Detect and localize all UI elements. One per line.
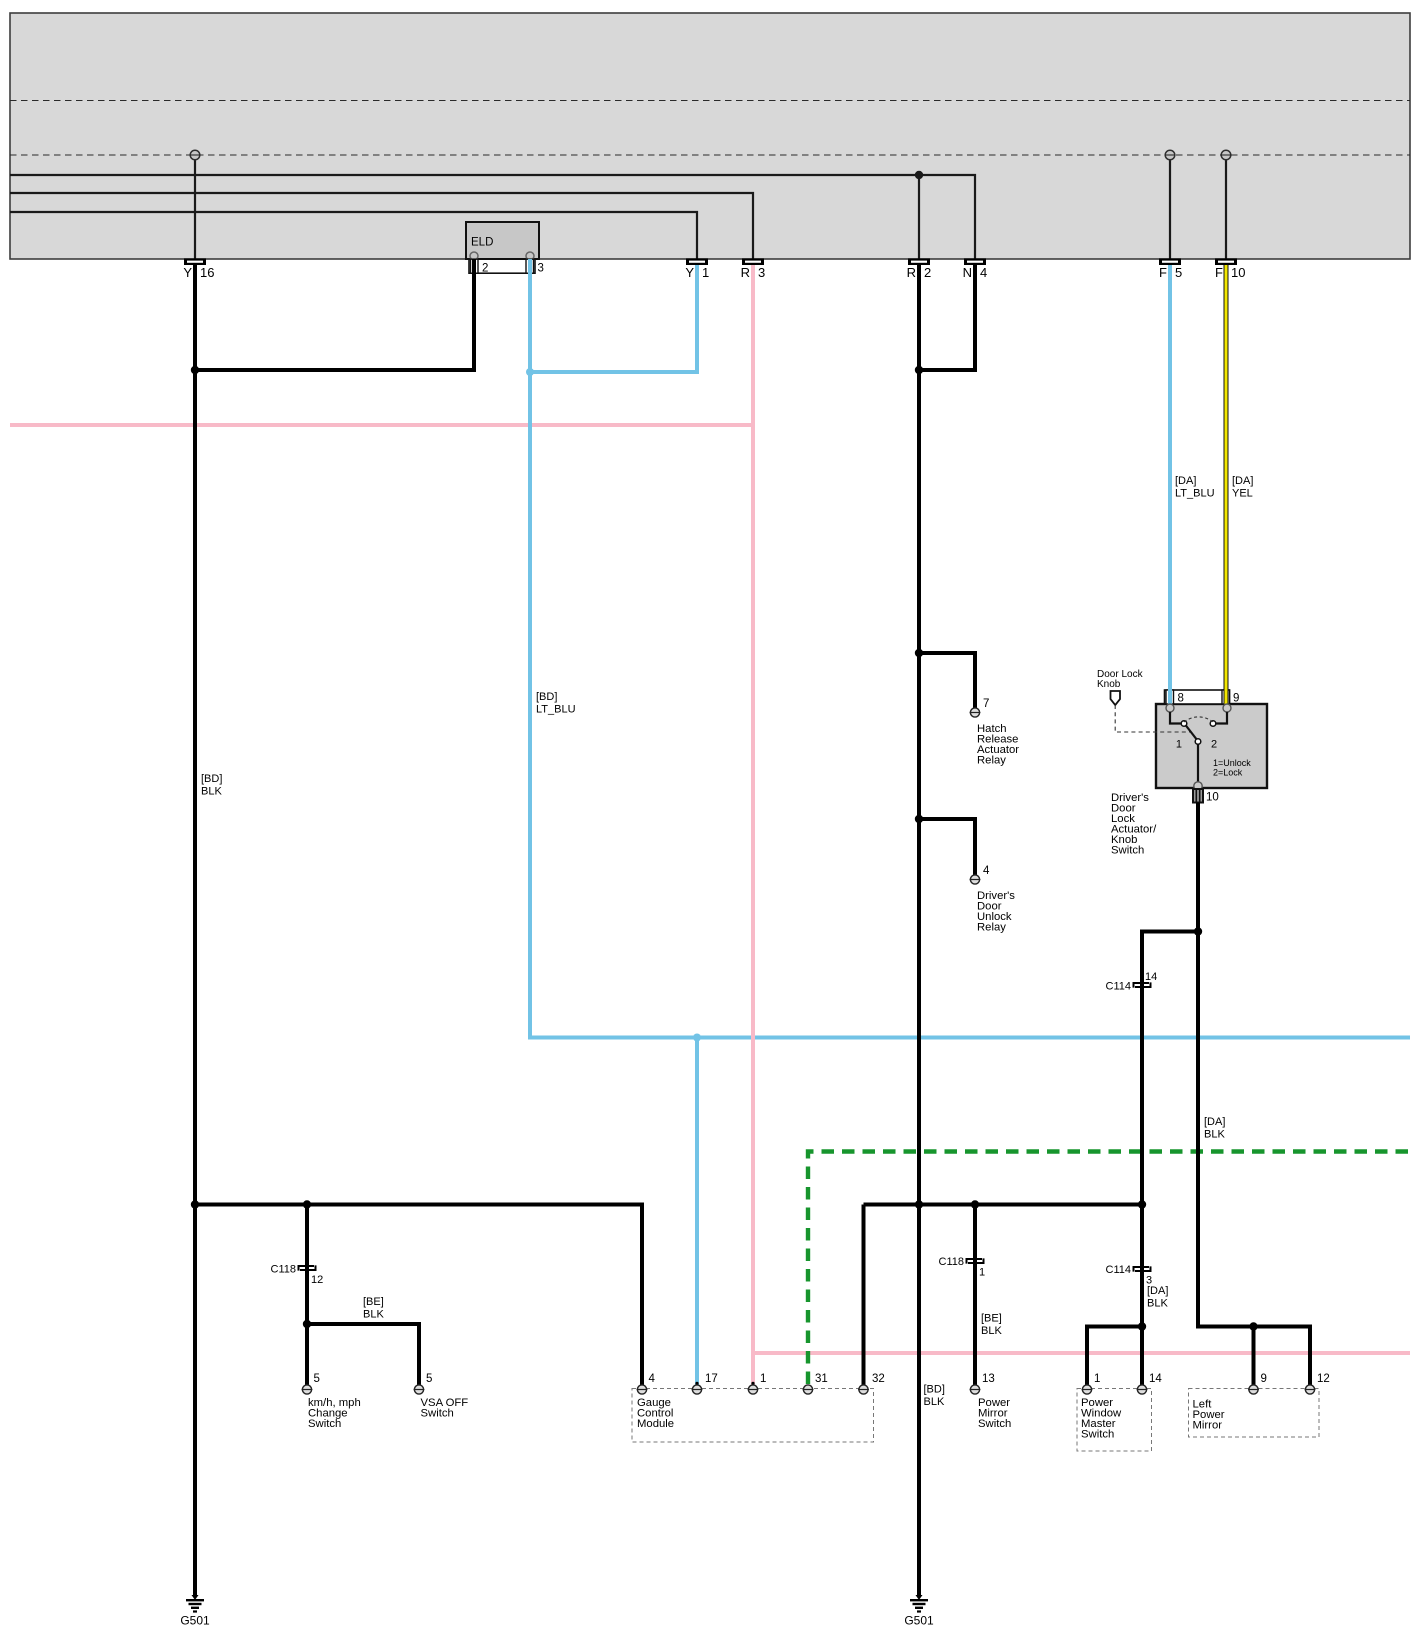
junction (919,653): [915, 649, 923, 657]
wire black R2 trunk to G501: [917, 265, 921, 1597]
svg-text:5: 5: [314, 1373, 320, 1385]
svg-text:LT_BLU: LT_BLU: [1175, 488, 1215, 500]
junction (1253.5,1326.5): [1249, 1322, 1257, 1330]
connector C118 pin 1: [939, 1256, 986, 1279]
gauge control module box: [632, 1389, 874, 1443]
gauge pin 4: [637, 1373, 656, 1394]
wire blue ELD pin3 down and across: [530, 259, 1410, 1038]
svg-text:14: 14: [1149, 1373, 1162, 1385]
svg-text:C114: C114: [1106, 981, 1131, 993]
wire branch to driver's door unlock relay pin 4: [919, 819, 975, 875]
switch wiring pin9 to contact 2: [1216, 712, 1227, 724]
svg-text:3: 3: [538, 263, 544, 275]
junction (1142,1204.5): [1138, 1200, 1146, 1208]
junction (195,1204.5): [191, 1200, 199, 1208]
svg-text:[DA]: [DA]: [1232, 475, 1253, 487]
svg-text:1: 1: [760, 1373, 766, 1385]
gauge pin 17: [692, 1373, 718, 1394]
svg-text:[BD]: [BD]: [201, 773, 222, 785]
gauge pin 32: [858, 1373, 885, 1394]
connector pins 8/9 block: [1165, 690, 1240, 705]
dashed bus line upper: [10, 100, 1410, 102]
svg-text:13: 13: [982, 1373, 995, 1385]
svg-text:1: 1: [1176, 739, 1182, 751]
pin 10 circle on box edge: [1194, 782, 1202, 790]
junction (1198,931.5): [1194, 927, 1202, 935]
svg-text:5: 5: [1175, 265, 1182, 280]
svg-text:F: F: [1215, 265, 1223, 280]
switch wiring pin8 to contact 1: [1170, 712, 1181, 724]
wire drop to left power mirror pin 9: [1252, 1327, 1256, 1386]
svg-text:31: 31: [815, 1373, 828, 1385]
junction (919,370): [915, 366, 923, 374]
wire black Y16 trunk to G501: [193, 265, 197, 1597]
wire black N4 jog to R2 trunk: [921, 265, 975, 370]
svg-text:C114: C114: [1106, 1264, 1131, 1276]
wire drop to C118-12 and km/h switch: [305, 1205, 309, 1386]
ground G501 right: [904, 1595, 934, 1628]
dash through page link circles: [190, 154, 201, 156]
svg-text:1: 1: [979, 1267, 985, 1279]
wire pink horizontal lower: [753, 1351, 1410, 1355]
svg-text:Switch: Switch: [978, 1418, 1011, 1430]
wire pink horizontal upper: [10, 423, 755, 427]
wire green dashed to gauge pin 31: [808, 1152, 1410, 1385]
svg-text:[DA]: [DA]: [1204, 1116, 1225, 1128]
gauge pin 31: [803, 1373, 828, 1394]
connector C114 pin 3: [1106, 1264, 1153, 1287]
svg-text:[BE]: [BE]: [981, 1313, 1002, 1325]
wire branch pin10 trunk to C114 line: [1142, 932, 1198, 1327]
svg-text:12: 12: [1317, 1373, 1330, 1385]
wire pink R3 to gauge pin 1: [751, 265, 755, 1385]
svg-text:[BD]: [BD]: [924, 1384, 945, 1396]
junction blue at (697,1037.5): [693, 1034, 701, 1042]
svg-text:1=Unlock: 1=Unlock: [1213, 758, 1251, 768]
svg-text:YEL: YEL: [1232, 488, 1253, 500]
connector N4: [963, 258, 988, 280]
svg-text:14: 14: [1145, 971, 1157, 983]
svg-text:BLK: BLK: [201, 786, 222, 798]
wire pin10 trunk to left power mirror: [1198, 803, 1310, 1386]
svg-text:4: 4: [649, 1373, 656, 1385]
svg-text:[BE]: [BE]: [363, 1296, 384, 1308]
wire drop to power mirror switch pin 13: [973, 1205, 977, 1386]
wire Y16 feed: [194, 155, 196, 259]
wire end dot pin 1: [751, 1382, 754, 1385]
svg-text:Switch: Switch: [1111, 845, 1144, 857]
junction bus A / R2: [915, 171, 923, 179]
svg-text:2=Lock: 2=Lock: [1213, 768, 1243, 778]
svg-text:R: R: [741, 265, 750, 280]
svg-text:7: 7: [983, 698, 989, 710]
svg-text:4: 4: [983, 865, 990, 877]
junction (307,1204.5): [303, 1200, 311, 1208]
junction (975,1204.5): [971, 1200, 979, 1208]
wire yellow through terminal 9: [1224, 689, 1229, 706]
svg-text:BLK: BLK: [981, 1325, 1002, 1337]
door lock knob symbol: [1111, 691, 1121, 705]
junction (307,1324): [303, 1320, 311, 1328]
svg-text:16: 16: [200, 265, 214, 280]
junction (1142,1326.5): [1138, 1322, 1146, 1330]
junction blue at (530,372): [526, 368, 534, 376]
lever pivot: [1195, 739, 1201, 745]
dashed travel arc: [1184, 717, 1213, 722]
dashed bus line lower: [10, 154, 1410, 156]
pin 7 hatch release actuator relay: [970, 698, 990, 717]
wire blue through terminal 8: [1168, 689, 1172, 706]
svg-text:Mirror: Mirror: [1193, 1420, 1223, 1432]
svg-text:BLK: BLK: [924, 1396, 945, 1408]
wire black ELD pin2 jog to Y16 trunk: [197, 259, 474, 370]
svg-text:Y: Y: [685, 265, 694, 280]
pin 13 power mirror switch: [970, 1373, 995, 1394]
wire blue F5 to door lock pin 8: [1168, 265, 1172, 692]
svg-text:Module: Module: [637, 1418, 674, 1430]
switch lever: [1186, 725, 1198, 741]
fuse/relay box band: [10, 13, 1410, 259]
connector R3: [741, 258, 766, 280]
pw master switch pin 14: [1137, 1373, 1163, 1394]
svg-text:ELD: ELD: [471, 237, 493, 249]
connector Y1: [685, 258, 709, 280]
wire blue drop to gauge pin 17: [695, 1038, 699, 1386]
svg-text:N: N: [963, 265, 972, 280]
node Y16 page link: [190, 150, 200, 160]
connector ELD pins 2/3: [469, 259, 544, 274]
wire blue Y1 jog: [532, 265, 697, 372]
svg-text:F: F: [1159, 265, 1167, 280]
wire bus B to R3: [10, 193, 753, 259]
contact 1: [1181, 721, 1187, 727]
left power mirror box: [1189, 1389, 1320, 1438]
svg-text:Y: Y: [183, 265, 192, 280]
pin 8 circle: [1166, 704, 1174, 712]
wire bus C to Y1: [10, 212, 697, 259]
wire ground bus right: [864, 1205, 1143, 1386]
svg-text:Relay: Relay: [977, 922, 1006, 934]
pin 5 km/h mph change switch: [302, 1373, 320, 1394]
svg-text:2: 2: [924, 265, 931, 280]
svg-text:[DA]: [DA]: [1175, 475, 1196, 487]
connector Y16: [183, 258, 214, 280]
svg-text:Knob: Knob: [1097, 679, 1121, 690]
svg-text:1: 1: [1094, 1373, 1100, 1385]
svg-text:R: R: [907, 265, 916, 280]
svg-text:10: 10: [1206, 792, 1219, 804]
connector R2: [907, 258, 932, 280]
svg-text:G501: G501: [180, 1614, 210, 1628]
wire ground bus left: [195, 1205, 642, 1386]
wire to power window master switch pin 1: [1087, 1327, 1142, 1386]
svg-text:9: 9: [1233, 693, 1239, 705]
svg-text:G501: G501: [904, 1614, 934, 1628]
svg-text:4: 4: [980, 265, 987, 280]
driver's door lock actuator box: [1156, 704, 1267, 788]
svg-text:BLK: BLK: [1147, 1298, 1168, 1310]
svg-text:5: 5: [426, 1373, 432, 1385]
wire to power window master switch pin 14: [1140, 1327, 1144, 1386]
svg-text:C118: C118: [271, 1264, 296, 1276]
wire F10 feed: [1225, 155, 1227, 259]
svg-text:17: 17: [705, 1373, 718, 1385]
connector F5: [1159, 258, 1182, 280]
ELD pin 2 circle: [470, 252, 478, 260]
svg-text:2: 2: [1211, 739, 1217, 751]
node F5 page link: [1165, 150, 1175, 160]
wire branch to VSA OFF switch: [307, 1324, 419, 1385]
left power mirror pin 12: [1305, 1373, 1330, 1394]
svg-text:3: 3: [758, 265, 765, 280]
connector F10: [1215, 258, 1245, 280]
svg-text:Switch: Switch: [1081, 1429, 1114, 1441]
svg-text:2: 2: [482, 263, 488, 275]
power window master switch box: [1077, 1389, 1152, 1452]
ground G501 left: [180, 1595, 210, 1628]
pin 4 driver's door unlock relay: [970, 865, 990, 884]
dashed link knob to switch lever: [1115, 705, 1190, 732]
connector pin 10: [1193, 789, 1219, 804]
junction (919,1204.5): [915, 1200, 923, 1208]
svg-text:C118: C118: [939, 1256, 964, 1268]
wire lever to pin 10: [1197, 744, 1199, 788]
connector C114 pin 14: [1106, 971, 1158, 993]
wire branch to hatch release relay pin 7: [919, 653, 975, 708]
svg-text:LT_BLU: LT_BLU: [536, 704, 576, 716]
svg-text:[BD]: [BD]: [536, 691, 557, 703]
wire F5 feed: [1169, 155, 1171, 259]
node F10 page link: [1221, 150, 1231, 160]
ELD box: [466, 222, 539, 259]
svg-text:1: 1: [702, 265, 709, 280]
svg-text:Switch: Switch: [308, 1418, 341, 1430]
junction (919,819): [915, 815, 923, 823]
connector C118 pin 12: [271, 1264, 324, 1287]
wire bus A to R2/N4: [10, 175, 975, 259]
wire end dot pin 17: [695, 1382, 698, 1385]
svg-text:BLK: BLK: [363, 1309, 384, 1321]
svg-text:[DA]: [DA]: [1147, 1285, 1168, 1297]
svg-text:Relay: Relay: [977, 755, 1006, 767]
pw master switch pin 1: [1082, 1373, 1101, 1394]
contact 2: [1210, 721, 1216, 727]
svg-text:32: 32: [872, 1373, 885, 1385]
gauge pin 1: [748, 1373, 767, 1394]
ELD pin 3 circle: [526, 252, 534, 260]
svg-text:9: 9: [1261, 1373, 1267, 1385]
left power mirror pin 9: [1248, 1373, 1267, 1394]
pin 9 circle: [1223, 704, 1231, 712]
wire R2 feed: [918, 175, 920, 259]
pin 5 VSA OFF switch: [414, 1373, 433, 1394]
svg-text:8: 8: [1178, 693, 1184, 705]
junction (195,370): [191, 366, 199, 374]
svg-text:10: 10: [1231, 265, 1245, 280]
wire yellow F10 to door lock pin 9: [1224, 265, 1229, 692]
svg-text:Switch: Switch: [421, 1408, 454, 1420]
svg-text:12: 12: [311, 1274, 323, 1286]
svg-text:BLK: BLK: [1204, 1129, 1225, 1141]
